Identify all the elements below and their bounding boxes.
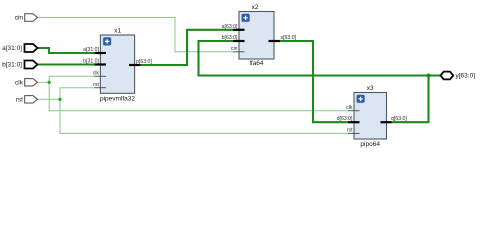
svg-text:b[63:0]: b[63:0] [222,35,238,41]
svg-text:y[63:0]: y[63:0] [456,73,476,80]
svg-text:p[63:0]: p[63:0] [136,59,152,65]
wire clk net vertical + branch to x1.clk [49,76,348,110]
module x2 lfa64 body [239,4,274,67]
pin x3.q[63:0] [381,116,408,122]
svg-text:lfa64: lfa64 [249,60,263,67]
svg-text:rst: rst [93,82,99,88]
svg-text:x2: x2 [252,4,259,11]
pin x2.s[63:0] [269,35,297,41]
pin x2.cin [231,46,245,52]
svg-text:x1: x1 [114,27,121,34]
svg-text:x3: x3 [367,85,374,92]
svg-text:cin: cin [231,46,238,52]
port b[31:0] [2,61,37,69]
pin x3.clk [346,105,359,111]
wire s net: x2.s to x3.d [280,41,348,122]
wire rst net vertical + branch to x1.rst and x3.rst [60,88,348,134]
port rst [16,96,38,104]
svg-text:clk: clk [346,105,353,111]
svg-text:b[31:0]: b[31:0] [83,59,99,65]
port cin [15,14,38,22]
node q junction [427,74,431,78]
port y[63:0] output [441,72,476,80]
wire a[31:0] net: port to x1.a [37,48,95,53]
node clk junction [48,81,51,84]
svg-text:rst: rst [347,128,353,134]
wire cin net: port to x2.cin [38,18,234,52]
pin x3.rst [347,128,360,134]
module x3 pipo64 body [354,85,387,148]
node rst junction [58,98,61,101]
pin x2.a[63:0] [222,24,245,30]
svg-text:a[31:0]: a[31:0] [2,45,22,52]
module x1 pipevmlfa32 body [100,27,135,102]
wire q feedback to x2.b [199,41,429,76]
svg-text:b[31:0]: b[31:0] [2,62,22,69]
svg-text:clk: clk [93,71,100,77]
port clk [15,79,37,87]
svg-text:s[63:0]: s[63:0] [281,35,297,41]
wire q net: x3.q to y port and feedback to x2.b [392,76,441,123]
pin x1.p[63:0] [129,59,152,65]
pin x1.b[31:0] [83,59,106,65]
svg-text:a[63:0]: a[63:0] [222,24,238,30]
svg-text:d[63:0]: d[63:0] [337,116,353,122]
pin x1.clk [93,71,106,77]
wire rst net: port to junction [37,98,60,100]
pin x2.b[63:0] [222,35,245,41]
wire b[31:0] net: port to x1.b [37,63,95,65]
pin x3.d[63:0] [337,116,360,122]
svg-text:rst: rst [16,96,23,103]
wire p net: x1.p to x2.a [140,30,233,65]
svg-text:pipo64: pipo64 [360,141,380,148]
svg-text:a[31:0]: a[31:0] [83,47,99,53]
wire clk net: port to junction [37,81,49,83]
svg-text:pipevmlfa32: pipevmlfa32 [100,95,135,102]
pin x1.rst [93,82,106,88]
svg-text:clk: clk [15,79,24,86]
svg-text:cin: cin [15,15,24,22]
svg-text:q[63:0]: q[63:0] [391,116,407,122]
pin x1.a[31:0] [83,47,106,53]
port a[31:0] [2,44,37,52]
